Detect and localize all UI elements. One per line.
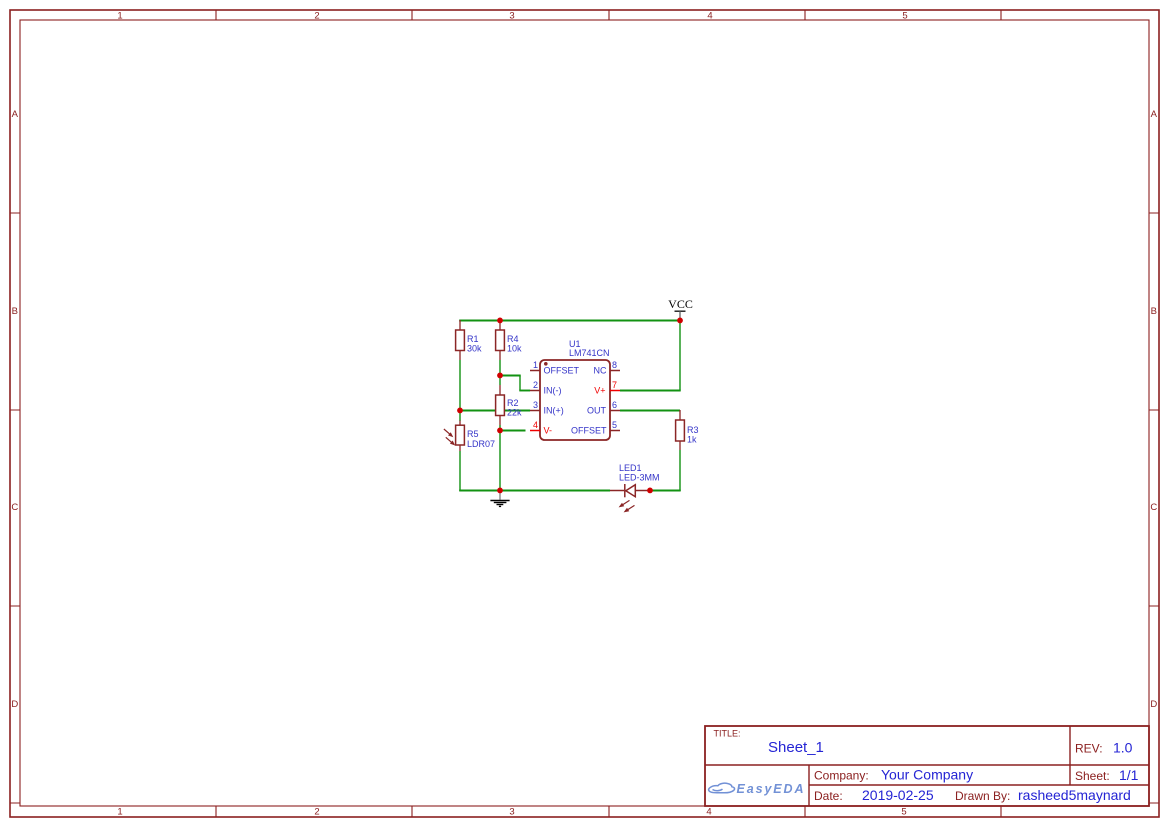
svg-text:V-: V-: [544, 426, 553, 436]
svg-text:1k: 1k: [687, 435, 697, 445]
svg-text:OFFSET: OFFSET: [571, 426, 607, 436]
svg-text:Company:: Company:: [814, 769, 869, 783]
svg-text:Date:: Date:: [814, 789, 843, 803]
svg-text:IN(-): IN(-): [544, 386, 562, 396]
svg-text:OUT: OUT: [587, 406, 607, 416]
svg-text:VCC: VCC: [668, 297, 693, 311]
svg-text:R5: R5: [467, 429, 479, 439]
svg-text:OFFSET: OFFSET: [544, 366, 580, 376]
svg-text:3: 3: [509, 11, 514, 22]
svg-text:1.0: 1.0: [1113, 740, 1133, 756]
svg-text:4: 4: [707, 11, 712, 22]
svg-text:5: 5: [612, 420, 617, 430]
svg-text:8: 8: [612, 360, 617, 370]
svg-text:Drawn By:: Drawn By:: [955, 789, 1010, 803]
svg-text:LED-3MM: LED-3MM: [619, 473, 660, 483]
svg-text:2: 2: [314, 806, 319, 817]
svg-text:A: A: [12, 109, 19, 120]
svg-text:LDR07: LDR07: [467, 439, 495, 449]
svg-text:30k: 30k: [467, 344, 482, 354]
svg-text:4: 4: [706, 806, 711, 817]
svg-text:D: D: [1150, 699, 1157, 710]
svg-text:1: 1: [117, 11, 122, 22]
svg-text:R2: R2: [507, 398, 519, 408]
svg-text:4: 4: [533, 420, 538, 430]
svg-text:10k: 10k: [507, 344, 522, 354]
svg-text:22k: 22k: [507, 408, 522, 418]
svg-text:IN(+): IN(+): [544, 406, 564, 416]
svg-text:TITLE:: TITLE:: [714, 729, 741, 739]
svg-text:R4: R4: [507, 334, 519, 344]
svg-text:Sheet:: Sheet:: [1075, 769, 1110, 783]
svg-text:1: 1: [533, 360, 538, 370]
svg-text:C: C: [1150, 502, 1157, 513]
svg-text:B: B: [1151, 306, 1157, 317]
svg-text:Your Company: Your Company: [881, 767, 973, 783]
svg-text:A: A: [1151, 109, 1158, 120]
svg-text:6: 6: [612, 400, 617, 410]
svg-text:1/1: 1/1: [1119, 767, 1139, 783]
svg-text:1: 1: [117, 806, 122, 817]
svg-text:B: B: [12, 306, 18, 317]
svg-text:3: 3: [509, 806, 514, 817]
svg-text:5: 5: [901, 806, 906, 817]
svg-text:2: 2: [533, 380, 538, 390]
svg-text:LM741CN: LM741CN: [569, 348, 610, 358]
svg-text:V+: V+: [594, 386, 605, 396]
svg-text:R1: R1: [467, 334, 479, 344]
svg-text:R3: R3: [687, 425, 699, 435]
svg-text:LED1: LED1: [619, 463, 642, 473]
svg-text:2: 2: [314, 11, 319, 22]
svg-text:D: D: [11, 699, 18, 710]
svg-text:REV:: REV:: [1075, 742, 1103, 756]
svg-text:rasheed5maynard: rasheed5maynard: [1018, 787, 1131, 803]
svg-text:NC: NC: [594, 366, 607, 376]
svg-text:Sheet_1: Sheet_1: [768, 739, 824, 756]
svg-text:C: C: [11, 502, 18, 513]
svg-text:EasyEDA: EasyEDA: [737, 782, 806, 796]
svg-text:3: 3: [533, 400, 538, 410]
svg-text:2019-02-25: 2019-02-25: [862, 787, 934, 803]
svg-text:5: 5: [902, 11, 907, 22]
svg-text:7: 7: [612, 380, 617, 390]
